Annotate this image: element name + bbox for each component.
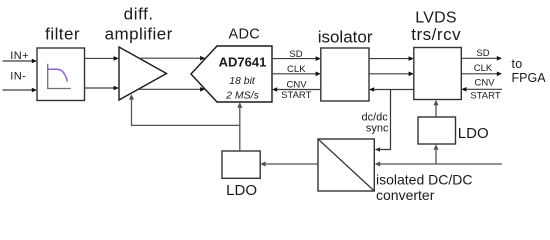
node to FPGA bbox=[512, 57, 547, 85]
regulator LDO1 block bbox=[222, 151, 260, 178]
ADC label bbox=[229, 27, 261, 43]
ADC spec 18 bit bbox=[229, 75, 256, 87]
filter block bbox=[37, 48, 85, 101]
wire CLK ADC to isolator bbox=[272, 72, 321, 77]
LDO2 label bbox=[458, 125, 489, 142]
wire external supply to DC/DC bbox=[375, 161, 502, 166]
wire LDO1 branch to amp bbox=[132, 124, 240, 126]
svg-text:filter: filter bbox=[45, 25, 80, 44]
svg-text:LDO: LDO bbox=[458, 125, 489, 142]
svg-text:2 MS/s: 2 MS/s bbox=[225, 90, 259, 102]
wire CNV isolator to ADC bbox=[272, 87, 321, 92]
svg-text:AD7641: AD7641 bbox=[219, 54, 267, 69]
wire IN+ input bbox=[3, 59, 38, 64]
node IN+ bbox=[10, 50, 29, 62]
svg-text:START: START bbox=[281, 90, 311, 101]
isolator label bbox=[318, 28, 373, 47]
net label CLK (ADC-isolator) bbox=[287, 64, 306, 75]
node IN- bbox=[10, 70, 26, 82]
wire filter to amp (-) bbox=[85, 86, 119, 91]
op-amp diff amplifier bbox=[119, 47, 167, 100]
svg-text:CLK: CLK bbox=[474, 63, 493, 74]
svg-text:CNV: CNV bbox=[474, 78, 495, 89]
svg-text:START: START bbox=[470, 91, 500, 102]
svg-text:isolator: isolator bbox=[318, 28, 373, 47]
isolated DC/DC converter label bbox=[376, 172, 472, 203]
wire CLK LVDS to FPGA bbox=[461, 72, 502, 77]
net label SD (ADC-isolator) bbox=[289, 49, 302, 60]
wire supply to LDO2 bbox=[433, 144, 438, 164]
svg-text:18 bit: 18 bit bbox=[229, 75, 256, 87]
filter axis bbox=[48, 64, 71, 89]
svg-text:to: to bbox=[512, 57, 523, 71]
diff. amplifier label bbox=[105, 5, 173, 44]
svg-text:FPGA: FPGA bbox=[512, 71, 547, 85]
net label CNV (ADC-isolator) bbox=[286, 80, 307, 91]
wire amp to ADC (-) bbox=[139, 87, 206, 92]
isolated DC/DC converter block bbox=[318, 139, 374, 191]
svg-text:IN-: IN- bbox=[10, 70, 26, 82]
wire filter to amp (+) bbox=[85, 56, 119, 61]
wire LDO2 to LVDS bbox=[433, 100, 438, 117]
filter label bbox=[45, 25, 80, 44]
LVDS transceiver block bbox=[414, 48, 462, 100]
wire amp power feed riser bbox=[129, 94, 134, 126]
svg-text:SD: SD bbox=[476, 48, 489, 59]
ADC part number AD7641 bbox=[219, 54, 267, 69]
svg-text:CNV: CNV bbox=[286, 80, 307, 91]
net label START (LVDS-FPGA) bbox=[470, 91, 500, 102]
wire CNV FPGA to LVDS bbox=[461, 87, 502, 92]
svg-text:LVDS: LVDS bbox=[415, 9, 456, 26]
svg-text:amplifier: amplifier bbox=[105, 25, 173, 44]
wire CLK isolator to LVDS bbox=[369, 72, 414, 77]
wire CNV LVDS to isolator bbox=[369, 87, 414, 92]
svg-text:diff.: diff. bbox=[124, 5, 154, 24]
net label CLK (LVDS-FPGA) bbox=[474, 63, 493, 74]
svg-text:LDO: LDO bbox=[226, 182, 257, 199]
filter response curve bbox=[48, 69, 68, 81]
net label dc/dc sync bbox=[362, 111, 389, 134]
wire DC/DC to LDO1 bbox=[260, 161, 318, 166]
LVDS trs/rcv label bbox=[411, 9, 461, 44]
net label SD (LVDS-FPGA) bbox=[476, 48, 489, 59]
wire SD isolator to LVDS bbox=[369, 56, 414, 61]
isolator block bbox=[321, 48, 369, 101]
svg-text:converter: converter bbox=[376, 187, 435, 203]
svg-text:isolated DC/DC: isolated DC/DC bbox=[376, 172, 472, 188]
ADC AD7641 block bbox=[191, 46, 272, 102]
wire amp to ADC (+) bbox=[139, 56, 205, 61]
svg-text:IN+: IN+ bbox=[10, 50, 29, 62]
regulator LDO2 block bbox=[418, 117, 456, 144]
wire dc/dc sync tap bbox=[375, 90, 391, 152]
wire SD ADC to isolator bbox=[272, 56, 321, 61]
net label START (ADC-isolator) bbox=[281, 90, 311, 101]
net label CNV (LVDS-FPGA) bbox=[474, 78, 495, 89]
ADC spec 2 MS/s bbox=[225, 90, 259, 102]
wire IN- input bbox=[3, 88, 38, 93]
wire LDO1 to ADC bbox=[237, 102, 242, 151]
svg-text:trs/rcv: trs/rcv bbox=[411, 25, 461, 44]
svg-text:ADC: ADC bbox=[229, 27, 261, 43]
wire SD LVDS to FPGA bbox=[461, 56, 502, 61]
LDO1 label bbox=[226, 182, 257, 199]
svg-text:sync: sync bbox=[366, 123, 389, 135]
